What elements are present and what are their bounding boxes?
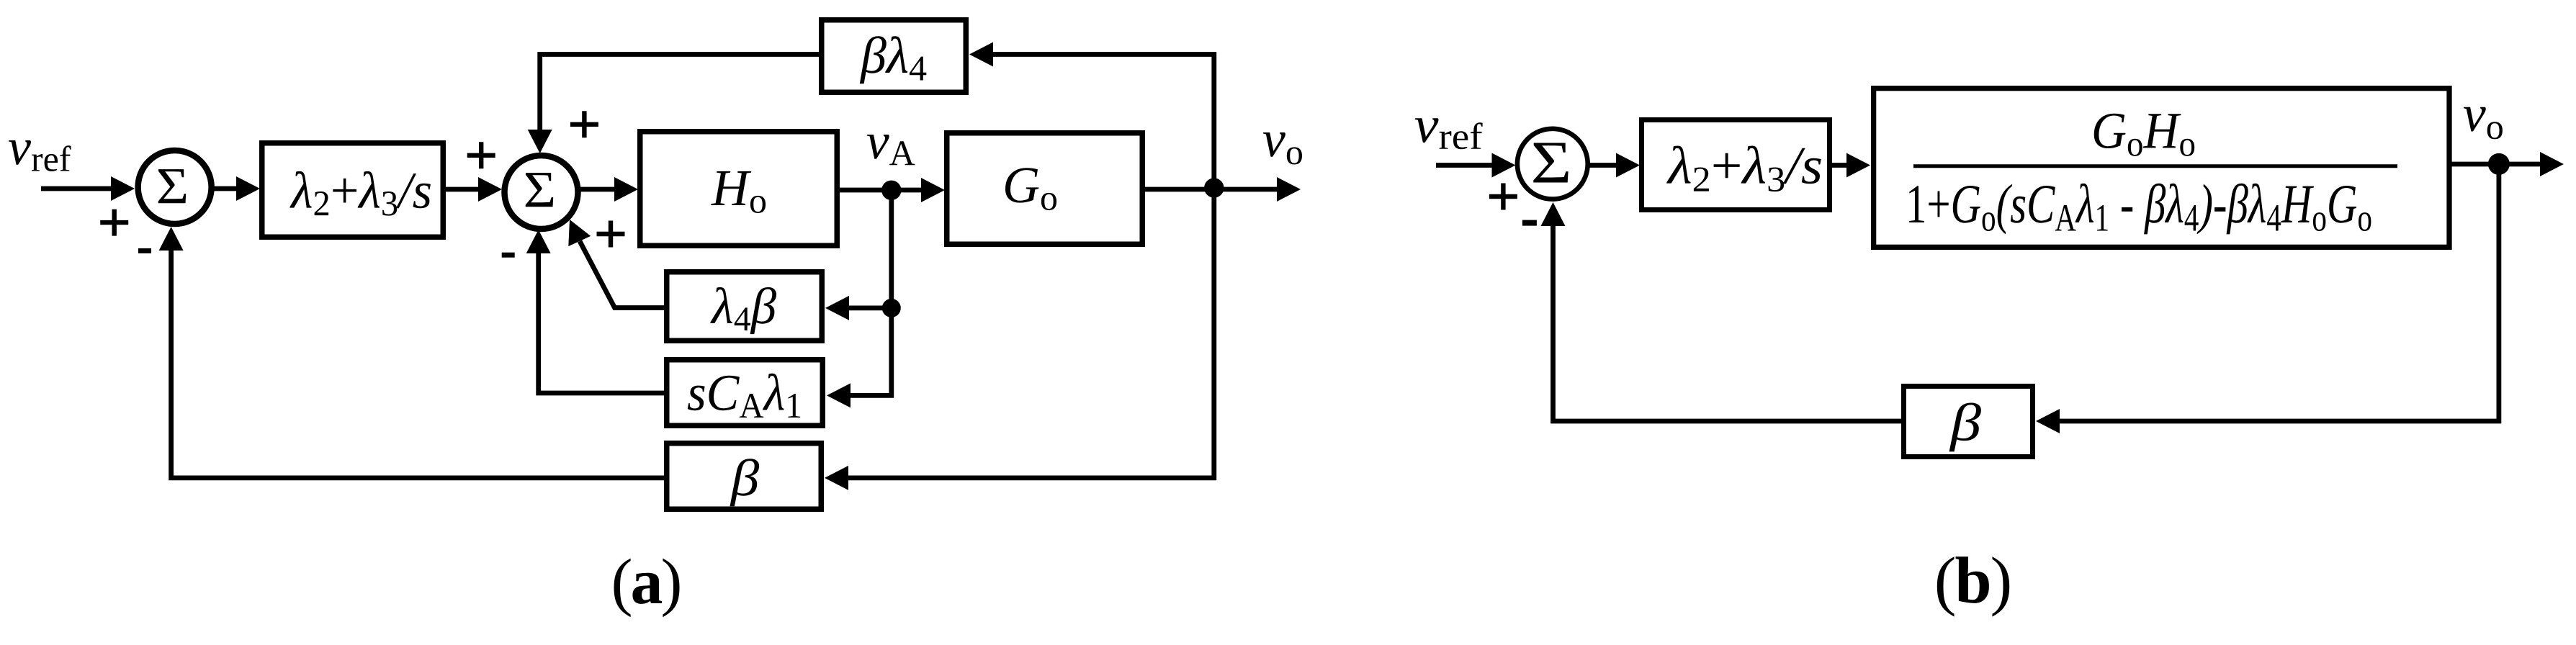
arrowhead into S bottom (b) bbox=[1541, 202, 1566, 226]
wire lambda4-beta output to diagonal bbox=[580, 241, 664, 308]
arrowhead into big block (b) bbox=[1846, 153, 1870, 178]
wire output arrow (b) bbox=[2499, 162, 2540, 167]
summing junction S (b) bbox=[1517, 129, 1588, 199]
plus sign at S2 top input bbox=[570, 122, 598, 127]
block label sCA-lambda1 bbox=[688, 374, 800, 418]
arrowhead into block Ho bbox=[614, 177, 638, 202]
block label beta (b) bbox=[1949, 403, 1981, 452]
arrowhead into block Go bbox=[921, 178, 945, 202]
wire beta-lambda4 to corner above S2 and down bbox=[540, 55, 819, 132]
node label v_ref (a) bbox=[9, 140, 71, 171]
minus sign at S1 bottom input bbox=[138, 248, 151, 253]
S sigma symbol (b) bbox=[1533, 143, 1568, 183]
plus sign at S left input (b) bbox=[1489, 194, 1517, 199]
arrowhead output (b) bbox=[2540, 152, 2564, 176]
wire big block to output node (b) bbox=[2449, 162, 2499, 167]
plus sign at S2 diagonal input bbox=[597, 232, 625, 236]
node label vo (b) bbox=[2464, 107, 2503, 140]
arrowhead diagonal into S2 bbox=[568, 220, 591, 246]
block lambda4-beta bbox=[667, 272, 822, 341]
wire node A down to taps bbox=[851, 190, 892, 395]
arrowhead into S2 bottom bbox=[526, 230, 551, 253]
S1 sigma symbol bbox=[158, 169, 187, 203]
block lambda2+lambda3/s (a) bbox=[262, 143, 444, 238]
block label lambda2+lambda3/s (b) bbox=[1666, 146, 1821, 192]
caption (b) bbox=[1937, 556, 2009, 616]
block label lambda4-beta bbox=[710, 287, 776, 334]
feedback wire vo down to beta (b) bbox=[2060, 164, 2499, 421]
wire Ho to node A bbox=[840, 188, 892, 193]
wire S to block lambda23 (b) bbox=[1587, 163, 1617, 168]
block label Ho bbox=[711, 171, 766, 213]
transfer function block (b) bbox=[1874, 89, 2449, 248]
block label lambda2+lambda3/s (a) bbox=[290, 171, 431, 216]
numerator GoHo bbox=[2094, 114, 2195, 156]
arrowhead into S2 top bbox=[528, 130, 552, 153]
node A junction dot bbox=[881, 181, 901, 200]
wire beta to corner below S1 and up bbox=[171, 250, 664, 478]
block label beta-lambda4 bbox=[860, 36, 927, 84]
block Go bbox=[947, 133, 1143, 245]
wire Go to output node (a) bbox=[1145, 187, 1214, 192]
feedback wire from vo up-left and down to beta (a) bbox=[848, 55, 1214, 478]
block sCA-lambda1 bbox=[667, 360, 823, 426]
arrowhead into S2 left (a) bbox=[478, 177, 502, 202]
wire beta to corner below S and up (b) bbox=[1553, 225, 1902, 421]
wire output arrow (a) bbox=[1214, 187, 1277, 192]
node label vo (a) bbox=[1263, 132, 1302, 165]
block label beta (a) bbox=[730, 459, 760, 506]
block beta (b) bbox=[1904, 387, 2033, 457]
wire input to S (b) bbox=[1436, 163, 1493, 168]
block lambda2+lambda3/s (b) bbox=[1642, 120, 1830, 210]
arrowhead into beta (b) bbox=[2036, 409, 2060, 433]
caption (a) bbox=[614, 559, 680, 618]
summing junction S2 bbox=[505, 155, 578, 229]
wire node A to block Go bbox=[892, 188, 923, 193]
output node junction dot (b) bbox=[2488, 153, 2510, 175]
arrowhead into S (b) bbox=[1492, 153, 1516, 178]
block label Go bbox=[1005, 168, 1056, 210]
plus sign at S1 left input bbox=[100, 220, 128, 225]
arrowhead into lambda4-beta bbox=[825, 296, 849, 320]
junction dot on lambda4-beta tap bbox=[882, 299, 901, 317]
wire tap to block lambda4-beta bbox=[849, 305, 892, 310]
arrowhead into S1 (a) bbox=[111, 176, 135, 201]
output node junction dot (a) bbox=[1204, 178, 1224, 197]
block Ho bbox=[640, 132, 838, 246]
denominator 1+Go(sCAl1-bl4)-bl4HoGo bbox=[1909, 184, 2371, 235]
summing junction S1 bbox=[138, 150, 212, 224]
wire lambda23 to big block (b) bbox=[1832, 163, 1848, 168]
wire sCA-lambda1 to corner and up to S2 bbox=[539, 250, 664, 393]
arrowhead into block lambda23 (a) bbox=[236, 176, 260, 201]
wire S1 to block lambda23 (a) bbox=[212, 186, 238, 191]
fraction bar bbox=[1913, 164, 2397, 168]
wire S2 to block Ho bbox=[580, 187, 614, 192]
arrowhead into beta-lambda4 bbox=[969, 42, 993, 67]
minus sign at S bottom input (b) bbox=[1522, 220, 1537, 226]
arrowhead into sCA-lambda1 bbox=[827, 383, 851, 407]
wire lambda23 to S2 (a) bbox=[446, 187, 479, 192]
node label v_ref (b) bbox=[1415, 118, 1483, 149]
node label vA bbox=[867, 135, 915, 165]
arrowhead output (a) bbox=[1277, 177, 1301, 202]
wire input to S1 (a) bbox=[41, 186, 114, 191]
block beta-lambda4 bbox=[822, 20, 966, 93]
plus sign at S2 left input bbox=[467, 153, 495, 158]
S2 sigma symbol bbox=[526, 173, 554, 207]
minus sign at S2 bottom input bbox=[502, 253, 515, 258]
arrowhead into lambda23 (b) bbox=[1616, 153, 1640, 178]
arrowhead into S1 bottom bbox=[159, 227, 184, 251]
arrowhead into beta (a) bbox=[825, 466, 848, 490]
block beta (a) bbox=[667, 443, 822, 510]
